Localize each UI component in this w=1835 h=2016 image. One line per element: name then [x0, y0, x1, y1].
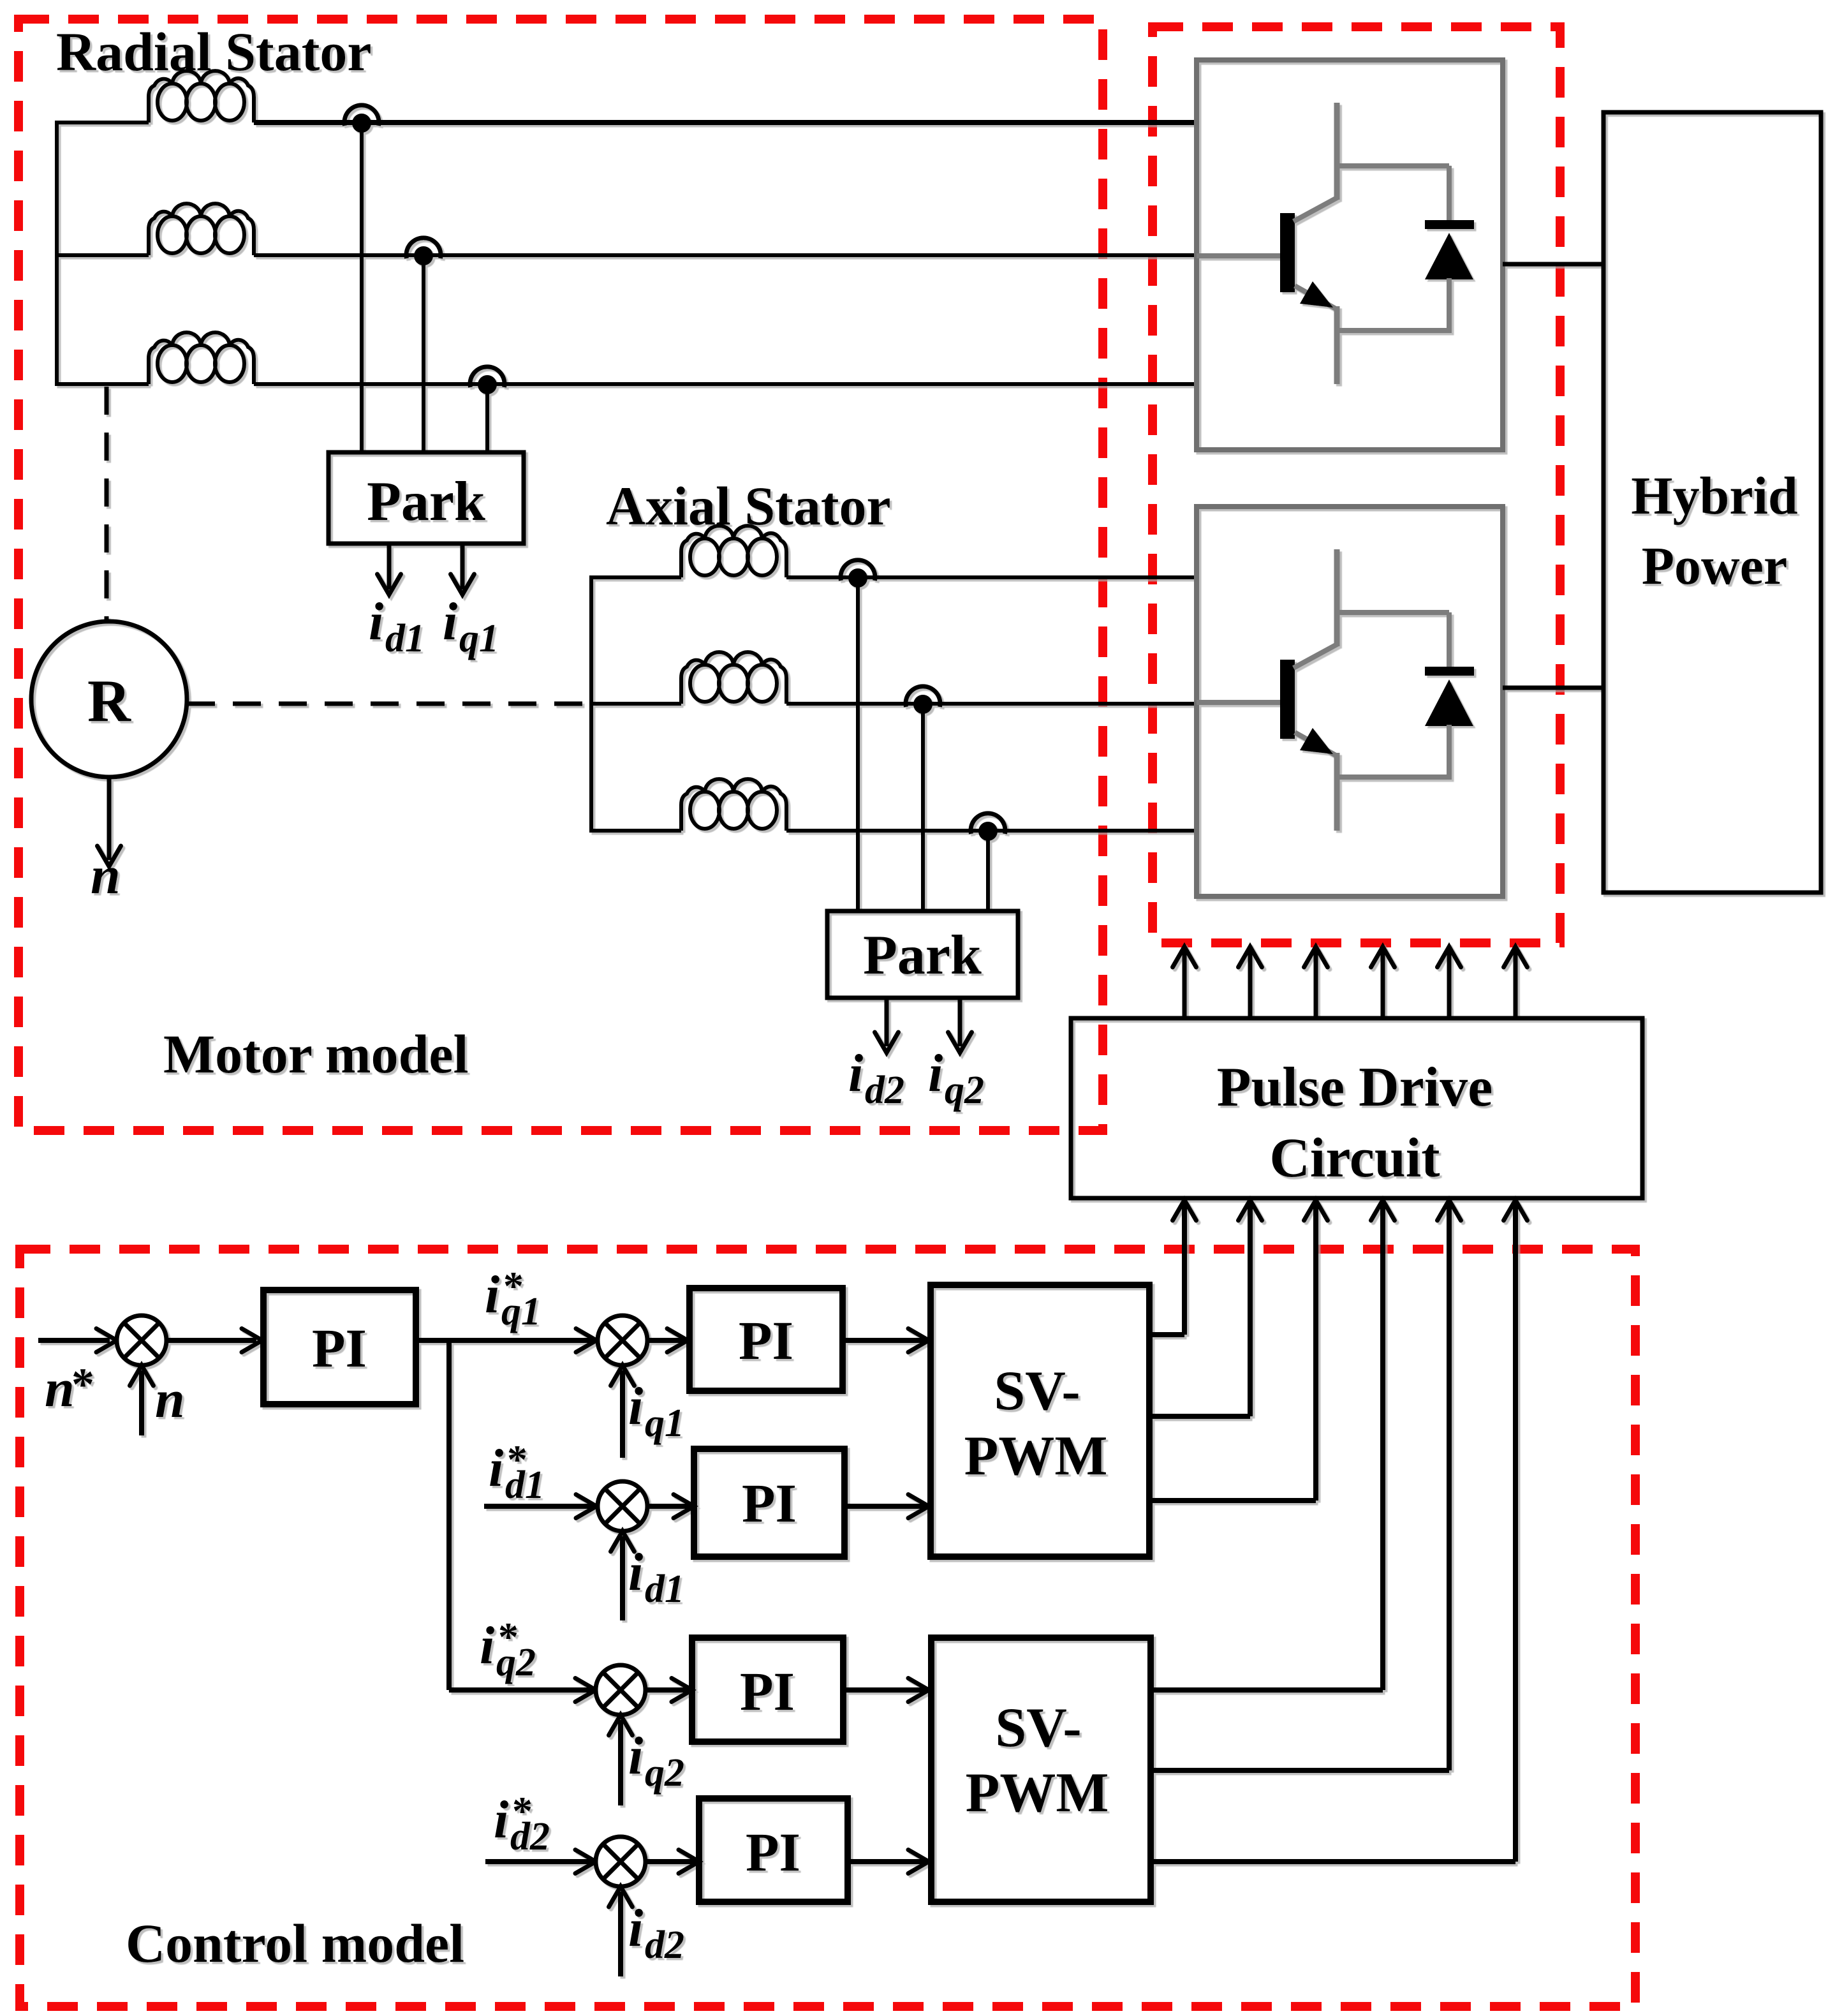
- summing node id1: [598, 1481, 647, 1531]
- svg-text:Motor model: Motor model: [163, 1023, 468, 1085]
- junction axial sensor phase A: [841, 560, 875, 581]
- svg-text:d1: d1: [385, 617, 425, 660]
- inverter boundary (red dashed): [1153, 27, 1560, 943]
- svg-text:i: i: [489, 1439, 503, 1498]
- svg-text:q1: q1: [501, 1290, 541, 1333]
- inductor axial phase C: [681, 779, 786, 831]
- wire inverter2 output to hybrid power: [1503, 686, 1603, 690]
- wire sum to PI iq1: [647, 1338, 684, 1343]
- svg-text:PI: PI: [739, 1310, 793, 1371]
- wire sensor tap C to Park: [485, 384, 489, 452]
- svg-text:Power: Power: [1642, 537, 1788, 596]
- wire id2 feedback: [618, 1892, 623, 1976]
- svg-text:Park: Park: [863, 924, 982, 986]
- svg-text:i: i: [928, 1044, 943, 1103]
- wire radial phase A lead: [55, 121, 149, 124]
- svg-text:Control model: Control model: [126, 1913, 464, 1974]
- svg-text:Radial Stator: Radial Stator: [56, 21, 372, 82]
- block PI speed: [263, 1290, 416, 1404]
- wire axial tap B to Park: [921, 704, 925, 911]
- wire radial left bus: [55, 122, 59, 384]
- wire inverter1 output to hybrid power: [1503, 262, 1603, 267]
- wire id2 ref input: [485, 1859, 594, 1864]
- svg-text:q1: q1: [645, 1402, 684, 1445]
- wire axial tap C to Park: [986, 831, 990, 911]
- wire id1 feedback: [620, 1536, 625, 1620]
- wire R to n output: [107, 777, 112, 860]
- wire sum to PI speed: [166, 1338, 256, 1343]
- svg-text:Hybrid: Hybrid: [1631, 466, 1797, 526]
- wire SVPWM2 out3 to pulse drive: [1151, 1859, 1515, 1864]
- wire PI speed output: [416, 1338, 596, 1343]
- svg-text:q2: q2: [645, 1751, 684, 1795]
- svg-text:q2: q2: [496, 1641, 536, 1684]
- wire PI iq1 to SVPWM1: [843, 1338, 925, 1343]
- block Park (radial): [328, 452, 524, 544]
- block Hybrid Power: [1603, 112, 1821, 893]
- block PI id2: [699, 1798, 848, 1902]
- wire Park out id1: [387, 544, 392, 589]
- svg-text:i: i: [628, 1726, 643, 1786]
- svg-text:d1: d1: [645, 1568, 684, 1611]
- svg-text:i: i: [628, 1899, 643, 1958]
- wire id1 ref input: [484, 1504, 596, 1509]
- inductor radial phase A: [149, 71, 254, 122]
- block PI iq1: [689, 1288, 843, 1391]
- svg-text:i: i: [628, 1377, 643, 1436]
- wire axial phase A to inverter: [786, 575, 1197, 579]
- wire n* input: [38, 1338, 110, 1343]
- svg-text:*: *: [71, 1359, 94, 1410]
- wire axial phase C to inverter: [786, 829, 1197, 833]
- svg-text:d2: d2: [645, 1923, 684, 1967]
- wire Park2 out id2: [885, 998, 889, 1046]
- wire dashed rotor link vertical: [105, 387, 109, 619]
- wire SVPWM1 out3 to pulse drive: [1149, 1498, 1316, 1503]
- IGBT module axial (transistor Q2 + diode D2): [1197, 507, 1503, 896]
- svg-text:q2: q2: [945, 1069, 984, 1112]
- wire SVPWM1 out1 to pulse drive: [1149, 1332, 1184, 1337]
- wire n feedback: [139, 1370, 144, 1435]
- wire radial phase A to inverter: [254, 120, 1197, 125]
- wire axial phase C lead: [589, 829, 681, 833]
- wire iq2 feedback: [618, 1720, 623, 1805]
- svg-text:PI: PI: [312, 1317, 367, 1379]
- svg-text:d2: d2: [510, 1815, 550, 1858]
- wire dashed rotor link horizontal: [187, 702, 589, 706]
- wire branch to iq2 row: [446, 1340, 452, 1690]
- svg-text:R: R: [87, 668, 131, 734]
- inductor axial phase A: [681, 526, 786, 577]
- junction current sensor phase A: [344, 105, 379, 126]
- block Pulse Drive Circuit: [1071, 1018, 1642, 1198]
- svg-text:q1: q1: [459, 617, 499, 660]
- wire axial left bus: [589, 577, 593, 831]
- wire radial phase B to inverter: [254, 253, 1197, 257]
- motor model boundary (red dashed): [18, 19, 1103, 1130]
- junction axial sensor phase B: [906, 686, 940, 707]
- svg-text:i: i: [494, 1790, 508, 1849]
- svg-text:PI: PI: [746, 1821, 800, 1883]
- svg-text:Park: Park: [367, 471, 485, 533]
- wire axial phase A lead: [589, 575, 681, 579]
- wire iq1 feedback: [620, 1370, 625, 1458]
- wire PI id1 to SVPWM1: [844, 1504, 925, 1509]
- wire sum to PI iq2: [645, 1687, 688, 1693]
- wire radial phase C to inverter: [254, 382, 1197, 386]
- wires gate drive outputs to inverter (6 arrows): [1183, 951, 1187, 1018]
- wire PI iq2 to SVPWM2: [843, 1687, 925, 1693]
- summing node iq1: [598, 1316, 647, 1365]
- summing node id2: [596, 1837, 645, 1886]
- svg-text:PI: PI: [742, 1472, 797, 1534]
- svg-text:d1: d1: [505, 1464, 545, 1507]
- block SV-PWM radial: [931, 1285, 1149, 1557]
- junction current sensor phase C: [470, 367, 505, 387]
- svg-text:PI: PI: [740, 1661, 795, 1722]
- control model boundary (red dashed): [20, 1249, 1635, 2006]
- wire SVPWM1 out2 to pulse drive: [1149, 1414, 1250, 1419]
- wire SVPWM2 out2 to pulse drive: [1151, 1768, 1449, 1773]
- svg-text:i: i: [480, 1616, 494, 1675]
- svg-text:Pulse Drive: Pulse Drive: [1217, 1056, 1493, 1118]
- wire radial phase B lead: [55, 253, 149, 257]
- block SV-PWM axial: [931, 1638, 1151, 1902]
- summing node speed: [117, 1316, 166, 1365]
- inductor axial phase B: [681, 652, 786, 704]
- summing node iq2: [596, 1665, 645, 1715]
- wire axial phase B lead: [589, 702, 681, 706]
- svg-text:PWM: PWM: [964, 1425, 1108, 1487]
- inductor radial phase B: [149, 204, 254, 255]
- block PI id1: [694, 1449, 844, 1557]
- junction current sensor phase B: [406, 238, 441, 258]
- svg-text:i: i: [848, 1044, 863, 1103]
- svg-text:SV-: SV-: [994, 1360, 1080, 1422]
- svg-text:i: i: [369, 592, 383, 651]
- block Park (axial): [827, 911, 1018, 998]
- svg-text:i: i: [628, 1543, 643, 1602]
- wire SVPWM2 out1 to pulse drive: [1151, 1687, 1383, 1693]
- svg-text:d2: d2: [865, 1069, 904, 1112]
- wire axial tap A to Park: [856, 577, 860, 911]
- svg-text:PWM: PWM: [966, 1762, 1109, 1824]
- IGBT module radial (transistor Q1 + diode D1): [1197, 60, 1503, 450]
- svg-text:n: n: [91, 846, 121, 905]
- wire sensor tap B to Park: [422, 255, 425, 452]
- wire sum to PI id1: [647, 1504, 690, 1509]
- svg-text:i: i: [443, 592, 457, 651]
- wire Park out iq1: [461, 544, 465, 589]
- svg-text:n: n: [45, 1359, 75, 1418]
- sensor R circle: [31, 621, 187, 777]
- svg-text:n: n: [155, 1370, 185, 1429]
- block PI iq2: [692, 1638, 843, 1742]
- svg-text:SV-: SV-: [995, 1697, 1081, 1759]
- wire Park2 out iq2: [958, 998, 962, 1046]
- inductor radial phase C: [149, 332, 254, 384]
- junction axial sensor phase C: [971, 813, 1005, 834]
- wire axial phase B to inverter: [786, 702, 1197, 706]
- wire PI id2 to SVPWM2: [848, 1859, 925, 1864]
- svg-text:Circuit: Circuit: [1269, 1127, 1440, 1189]
- wire sensor tap A to Park: [360, 122, 364, 452]
- wire radial phase C lead: [55, 382, 149, 386]
- svg-text:i: i: [485, 1265, 499, 1324]
- wire iq2 ref from branch: [449, 1687, 594, 1693]
- wire sum to PI id2: [645, 1859, 695, 1864]
